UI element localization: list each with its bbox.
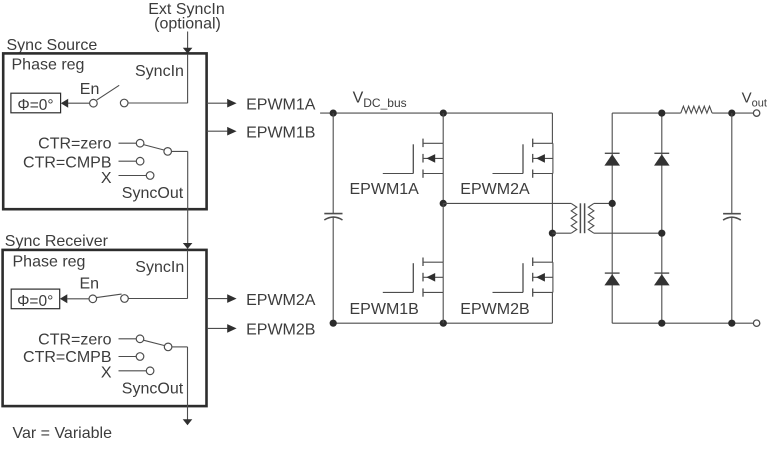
- switch SyncOut blade (receiver): [143, 340, 164, 345]
- wire En switch to SyncIn drop (source): [128, 102, 188, 104]
- wire X stub (source): [119, 175, 147, 177]
- wire Q3 source to bottom rail: [442, 292, 444, 323]
- transistor Q2 EPWM2A: [493, 139, 553, 178]
- switch En blade open (source): [97, 85, 120, 100]
- arrowhead into phase reg (source): [61, 99, 68, 108]
- terminal Vout+: [753, 110, 759, 116]
- wire bridge bottom rail: [333, 322, 552, 324]
- svg-text:Sync Receiver: Sync Receiver: [5, 233, 109, 250]
- switch contact X (receiver): [146, 367, 154, 375]
- wire arrowhead to En switch (source): [68, 102, 90, 104]
- wire rectifier top rail: [612, 112, 681, 114]
- wire Q2 source down right leg: [551, 174, 553, 234]
- wire SyncOut common to vertical (receiver): [172, 346, 188, 348]
- wire Q3 drain to mid node: [442, 203, 444, 262]
- wire EPWM1B output: [207, 130, 228, 132]
- transistor Q4 EPWM2B: [493, 258, 553, 297]
- svg-text:CTR=CMPB: CTR=CMPB: [23, 349, 111, 366]
- svg-text:Sync Source: Sync Source: [7, 37, 98, 54]
- transformer T1 primary winding: [571, 203, 577, 233]
- wire SyncIn vertical (source): [187, 54, 189, 103]
- arrowhead EPWM2A: [227, 294, 236, 303]
- node secondary top to left column: [609, 200, 616, 207]
- svg-text:SyncIn: SyncIn: [135, 259, 184, 276]
- wire primary top lead: [443, 202, 571, 204]
- transistor Q1 EPWM1A: [383, 139, 443, 178]
- node rectifier bottom right column: [658, 320, 665, 327]
- svg-text:EPWM2B: EPWM2B: [460, 301, 529, 318]
- wire secondary top lead: [594, 202, 612, 204]
- svg-text:EPWM1A: EPWM1A: [350, 181, 420, 198]
- diode D3 bottom left: [604, 273, 620, 285]
- svg-text:Vout: Vout: [742, 90, 767, 110]
- wire Q4 drain to right mid node: [551, 233, 553, 262]
- switch En right contact (source): [120, 99, 128, 107]
- arrowhead SyncOut receiver out: [183, 419, 193, 425]
- wire SyncOut vertical receiver out: [187, 347, 189, 420]
- node DC bus cap top: [330, 110, 337, 117]
- node Vout cap bottom: [728, 320, 735, 327]
- wire DC bus top rail: [320, 112, 552, 114]
- node Vout cap top: [728, 110, 735, 117]
- switch En left contact (source): [90, 99, 98, 107]
- wire output cap upper: [731, 113, 733, 213]
- switch contact X (source): [146, 172, 154, 180]
- wire primary bottom lead: [552, 232, 571, 234]
- svg-text:EPWM2B: EPWM2B: [246, 322, 315, 339]
- svg-text:EPWM2A: EPWM2A: [246, 292, 316, 309]
- switch SyncOut blade (source): [144, 145, 165, 151]
- wire CTR=CMPB stub (receiver): [119, 356, 137, 358]
- arrowhead Ext SyncIn into Sync Source: [183, 48, 193, 54]
- switch SyncOut sel contact CTR=zero (receiver): [136, 335, 144, 343]
- svg-text:X: X: [101, 365, 112, 382]
- diode D4 bottom right: [654, 273, 670, 285]
- capacitor DC bus: [324, 213, 342, 215]
- wire inductor to Vout terminal: [712, 112, 753, 114]
- wire DC bus cap lower: [332, 217, 334, 323]
- svg-text:Phase reg: Phase reg: [12, 57, 85, 74]
- svg-text:CTR=CMPB: CTR=CMPB: [23, 154, 111, 171]
- wire rectifier left column: [611, 113, 613, 323]
- node bottom rail left: [330, 320, 337, 327]
- phase register box F=0 (source): [11, 93, 61, 113]
- switch SyncOut common contact (source): [164, 148, 172, 156]
- svg-text:EPWM1B: EPWM1B: [350, 301, 419, 318]
- wire rectifier right column: [661, 113, 663, 323]
- wire EPWM2A output: [207, 298, 228, 300]
- svg-text:SyncOut: SyncOut: [122, 381, 184, 398]
- svg-text:EPWM1B: EPWM1B: [246, 125, 315, 142]
- transistor Q3 EPWM1B: [383, 258, 443, 297]
- node secondary bottom to right column: [658, 230, 665, 237]
- svg-text:CTR=zero: CTR=zero: [38, 136, 111, 153]
- wire SyncOut vertical source to receiver: [187, 151, 189, 243]
- arrowhead EPWM1A: [227, 99, 236, 108]
- switch En blade closed (receiver): [96, 294, 121, 298]
- switch contact CTR=CMPB (receiver): [136, 353, 144, 361]
- wire En switch to SyncIn drop (receiver): [128, 298, 187, 300]
- svg-text:Phase reg: Phase reg: [13, 253, 86, 270]
- inductor output filter: [681, 106, 712, 113]
- node bottom rail left leg: [440, 320, 447, 327]
- svg-text:En: En: [80, 81, 100, 98]
- wire SyncOut common to vertical (source): [172, 150, 188, 152]
- wire Q1 drain to top rail: [442, 113, 444, 143]
- block Sync Source: [3, 53, 206, 209]
- arrowhead into phase reg (receiver): [60, 294, 67, 303]
- svg-text:SyncOut: SyncOut: [122, 185, 184, 202]
- svg-text:CTR=zero: CTR=zero: [38, 331, 111, 348]
- node left leg midpoint: [440, 200, 447, 207]
- wire EPWM2B output: [207, 327, 228, 329]
- wire EPWM1A output: [207, 102, 228, 104]
- wire SyncIn vertical (receiver): [187, 250, 189, 298]
- wire rectifier bottom rail: [612, 322, 753, 324]
- switch SyncOut sel contact CTR=zero (source): [136, 139, 144, 147]
- svg-text:EPWM2A: EPWM2A: [460, 181, 530, 198]
- switch contact CTR=CMPB (source): [136, 157, 144, 165]
- wire DC bus cap upper: [332, 113, 334, 213]
- terminal Vout-: [753, 320, 759, 326]
- svg-text:En: En: [80, 275, 100, 292]
- transformer T1 secondary winding: [588, 203, 594, 233]
- wire output cap lower: [731, 218, 733, 324]
- node left leg drain: [440, 110, 447, 117]
- arrowhead EPWM1B: [227, 127, 236, 136]
- arrowhead EPWM2B: [227, 324, 236, 333]
- svg-text:(optional): (optional): [154, 16, 221, 33]
- svg-text:Φ=0°: Φ=0°: [17, 293, 53, 310]
- transformer T1 core: [579, 203, 581, 233]
- wire Ext SyncIn drop: [187, 32, 189, 50]
- wire X stub (receiver): [119, 370, 147, 372]
- node right leg midpoint: [549, 230, 556, 237]
- diode D2 top right: [654, 153, 670, 165]
- svg-text:Var = Variable: Var = Variable: [13, 425, 113, 442]
- wire secondary bottom lead: [594, 232, 662, 234]
- svg-text:SyncIn: SyncIn: [135, 63, 184, 80]
- svg-text:VDC_bus: VDC_bus: [353, 90, 407, 111]
- wire Q1 source to mid node: [442, 174, 444, 204]
- wire CTR=zero stub (receiver): [119, 338, 137, 340]
- arrowhead SyncOut into Sync Receiver: [183, 243, 193, 249]
- svg-text:X: X: [101, 170, 112, 187]
- switch SyncOut common contact (receiver): [164, 343, 172, 351]
- diode D1 top left: [604, 153, 620, 165]
- wire Q4 source to bottom rail: [551, 292, 553, 323]
- capacitor output: [723, 213, 741, 215]
- switch En right contact (receiver): [121, 295, 129, 303]
- block Sync Receiver: [3, 250, 207, 406]
- wire CTR=CMPB stub (source): [119, 160, 137, 162]
- phase register box F=0 (receiver): [11, 289, 60, 309]
- svg-text:EPWM1A: EPWM1A: [246, 96, 316, 113]
- wire Q2 drain to top rail: [551, 113, 553, 143]
- node rectifier top right column: [658, 110, 665, 117]
- wire arrowhead to En switch (receiver): [67, 298, 89, 300]
- switch En left contact (receiver): [89, 295, 97, 303]
- svg-text:Φ=0°: Φ=0°: [17, 97, 53, 114]
- wire CTR=zero stub (source): [119, 142, 137, 144]
